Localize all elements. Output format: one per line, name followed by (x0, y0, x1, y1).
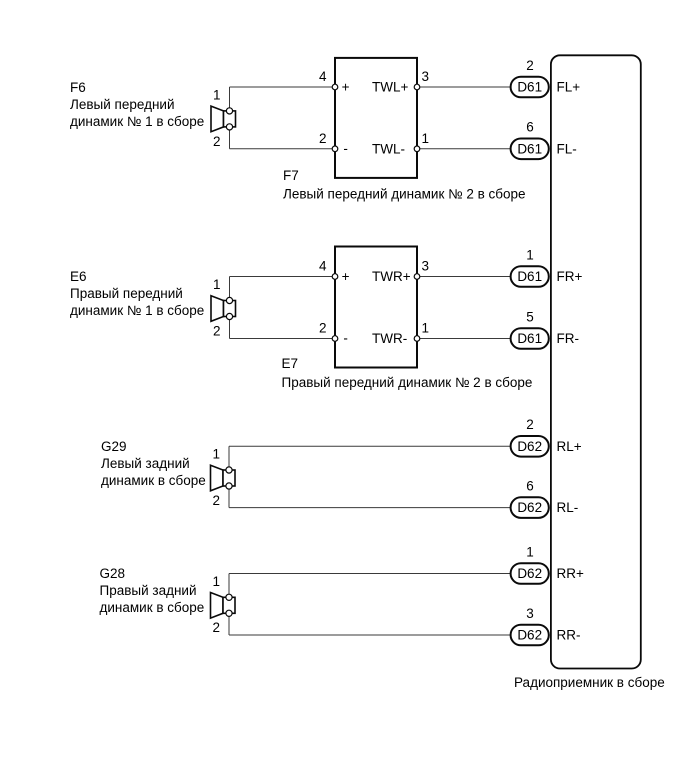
svg-text:FR+: FR+ (557, 269, 583, 284)
svg-text:D61: D61 (517, 331, 542, 346)
svg-text:D61: D61 (517, 80, 542, 95)
svg-text:D62: D62 (517, 628, 542, 643)
svg-text:1: 1 (422, 131, 430, 146)
svg-text:Радиоприемник в сборе: Радиоприемник в сборе (514, 675, 665, 690)
svg-text:динамик в сборе: динамик в сборе (101, 473, 206, 488)
svg-text:D62: D62 (517, 500, 542, 515)
svg-text:FL+: FL+ (557, 80, 581, 95)
svg-text:D62: D62 (517, 566, 542, 581)
svg-text:TWL-: TWL- (372, 141, 405, 156)
svg-text:RL+: RL+ (557, 439, 582, 454)
svg-text:D62: D62 (517, 439, 542, 454)
svg-text:1: 1 (212, 447, 220, 462)
svg-text:RR+: RR+ (557, 566, 584, 581)
svg-text:2: 2 (526, 417, 534, 432)
svg-text:D61: D61 (517, 141, 542, 156)
svg-text:Правый задний: Правый задний (100, 583, 197, 598)
svg-text:E7: E7 (282, 356, 299, 371)
svg-text:2: 2 (213, 134, 221, 149)
svg-text:6: 6 (526, 478, 534, 493)
svg-text:1: 1 (526, 247, 534, 262)
svg-text:Левый передний: Левый передний (70, 97, 175, 112)
svg-text:3: 3 (422, 259, 430, 274)
svg-text:TWR+: TWR+ (372, 269, 411, 284)
svg-text:Правый передний: Правый передний (70, 286, 183, 301)
svg-text:TWR-: TWR- (372, 331, 407, 346)
svg-text:2: 2 (319, 321, 327, 336)
svg-text:6: 6 (526, 120, 534, 135)
svg-text:-: - (343, 141, 348, 156)
svg-text:2: 2 (526, 58, 534, 73)
svg-text:3: 3 (422, 69, 430, 84)
svg-text:G29: G29 (101, 439, 127, 454)
svg-text:3: 3 (526, 606, 534, 621)
svg-text:динамик в сборе: динамик в сборе (100, 600, 205, 615)
svg-text:G28: G28 (100, 566, 126, 581)
svg-text:RL-: RL- (557, 500, 579, 515)
svg-text:5: 5 (526, 309, 534, 324)
svg-text:D61: D61 (517, 269, 542, 284)
svg-text:Левый задний: Левый задний (101, 456, 190, 471)
svg-text:-: - (343, 331, 348, 346)
svg-text:1: 1 (422, 321, 430, 336)
svg-text:+: + (342, 269, 350, 284)
svg-text:TWL+: TWL+ (372, 80, 408, 95)
svg-text:F7: F7 (283, 168, 299, 183)
svg-text:1: 1 (213, 87, 221, 102)
svg-text:F6: F6 (70, 80, 86, 95)
svg-text:RR-: RR- (557, 628, 581, 643)
svg-text:1: 1 (526, 544, 534, 559)
svg-text:2: 2 (213, 324, 221, 339)
svg-text:FR-: FR- (557, 331, 580, 346)
svg-text:динамик № 1 в сборе: динамик № 1 в сборе (70, 114, 204, 129)
svg-text:E6: E6 (70, 269, 87, 284)
svg-text:FL-: FL- (557, 141, 577, 156)
svg-text:Левый передний динамик № 2 в с: Левый передний динамик № 2 в сборе (283, 187, 526, 202)
svg-text:4: 4 (319, 69, 327, 84)
svg-text:1: 1 (212, 574, 220, 589)
svg-text:2: 2 (319, 131, 327, 146)
svg-text:Правый передний динамик № 2 в: Правый передний динамик № 2 в сборе (282, 375, 533, 390)
svg-text:2: 2 (212, 493, 220, 508)
svg-text:1: 1 (213, 277, 221, 292)
svg-text:динамик № 1 в сборе: динамик № 1 в сборе (70, 303, 204, 318)
svg-text:2: 2 (212, 620, 220, 635)
svg-text:+: + (342, 80, 350, 95)
svg-text:4: 4 (319, 259, 327, 274)
